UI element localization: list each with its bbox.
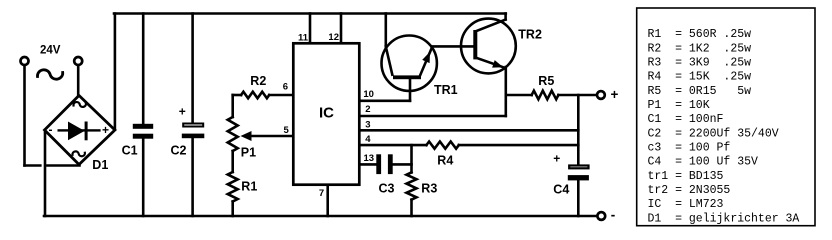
- svg-text:2: 2: [365, 104, 370, 115]
- svg-text:+: +: [179, 105, 186, 119]
- svg-text:+: +: [611, 87, 619, 102]
- svg-text:c3 = 100 Pf: c3 = 100 Pf: [648, 142, 731, 155]
- svg-text:7: 7: [319, 188, 324, 199]
- svg-text:R5: R5: [538, 74, 554, 88]
- svg-text:13: 13: [364, 153, 375, 164]
- svg-text:R4: R4: [437, 153, 453, 167]
- svg-text:tr1 = BD135: tr1 = BD135: [648, 170, 724, 183]
- svg-text:P1 = 10K: P1 = 10K: [648, 99, 710, 112]
- svg-text:R2: R2: [250, 74, 266, 88]
- svg-text:4: 4: [365, 134, 371, 145]
- svg-text:24V: 24V: [40, 45, 61, 57]
- svg-text:D1 = gelijkrichter 3A: D1 = gelijkrichter 3A: [648, 212, 800, 225]
- svg-text:C3: C3: [379, 182, 395, 196]
- svg-text:D1: D1: [92, 158, 108, 172]
- svg-text:10: 10: [363, 89, 374, 100]
- svg-text:C2: C2: [171, 144, 187, 158]
- svg-text:P1: P1: [241, 145, 256, 159]
- svg-text:C1 = 100nF: C1 = 100nF: [648, 113, 724, 126]
- svg-text:C4: C4: [553, 183, 569, 197]
- svg-text:12: 12: [328, 32, 339, 43]
- svg-text:11: 11: [298, 32, 309, 43]
- svg-text:3: 3: [365, 119, 370, 130]
- svg-text:TR2: TR2: [518, 27, 542, 41]
- svg-text:+: +: [102, 123, 109, 137]
- svg-text:tr2 = 2N3055: tr2 = 2N3055: [648, 184, 731, 197]
- svg-text:R1: R1: [241, 179, 257, 193]
- svg-text:IC: IC: [319, 105, 334, 122]
- svg-text:IC = LM723: IC = LM723: [648, 198, 724, 211]
- svg-text:6: 6: [283, 82, 288, 93]
- svg-text:R1 = 560R .25w: R1 = 560R .25w: [648, 28, 752, 41]
- svg-text:5: 5: [284, 125, 290, 136]
- svg-text:+: +: [553, 152, 560, 166]
- svg-text:R2 = 1K2 .25w: R2 = 1K2 .25w: [648, 42, 752, 55]
- svg-text:C1: C1: [122, 144, 138, 158]
- svg-text:C2 = 2200Uf 35/40V: C2 = 2200Uf 35/40V: [648, 127, 779, 140]
- svg-text:R4 = 15K .25w: R4 = 15K .25w: [648, 71, 752, 84]
- svg-text:R3 = 3K9 .25w: R3 = 3K9 .25w: [648, 57, 752, 70]
- svg-text:-: -: [611, 208, 616, 223]
- svg-text:C4 = 100 Uf 35V: C4 = 100 Uf 35V: [648, 156, 759, 169]
- svg-text:-: -: [49, 123, 53, 137]
- svg-text:R5 = 0R15 5w: R5 = 0R15 5w: [648, 85, 752, 98]
- svg-text:R3: R3: [421, 182, 437, 196]
- svg-text:TR1: TR1: [434, 83, 458, 97]
